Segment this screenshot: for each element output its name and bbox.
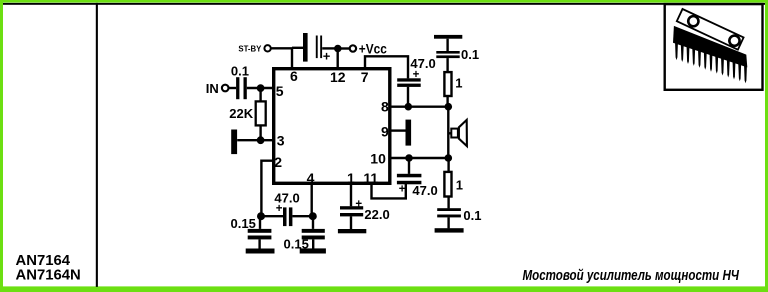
package pins	[675, 41, 747, 84]
svg-text:47.0: 47.0	[412, 183, 437, 198]
wire C10 to ground	[350, 216, 352, 229]
wire C7 to pin 4 node	[292, 215, 312, 217]
wire pin 10 line	[392, 157, 451, 159]
wire IN to C6	[228, 87, 236, 89]
svg-text:+Vcc: +Vcc	[359, 40, 387, 56]
ground bar at pin 9	[406, 120, 412, 146]
wire pin 1 to C10	[350, 184, 352, 206]
wire C3 to R1	[446, 58, 448, 72]
wire node to ground bar	[237, 139, 260, 141]
+Vcc terminal circle	[350, 45, 356, 51]
wire C2 to pin 8 line	[407, 87, 409, 107]
wire R2 to C5	[447, 197, 449, 209]
svg-text:IN: IN	[206, 81, 219, 96]
wire pin10 node to C4	[408, 158, 410, 174]
top rule line	[3, 3, 765, 5]
resistor R1 1 (top right)	[444, 72, 462, 96]
svg-text:3: 3	[277, 133, 285, 149]
node pin5/R3	[257, 84, 265, 92]
node pin10/speaker	[445, 154, 453, 162]
wire node to pin 12	[337, 51, 339, 68]
mounting tab	[677, 9, 744, 50]
svg-text:6: 6	[290, 68, 298, 84]
node pin8/speaker	[445, 103, 453, 111]
node pin2/C7	[257, 212, 265, 220]
svg-text:1: 1	[455, 76, 462, 91]
wire pin 9	[392, 129, 406, 131]
svg-text:12: 12	[330, 69, 346, 85]
wire node to C7	[261, 215, 283, 217]
capacitor C4 47.0 (pin10 to pin11)	[397, 174, 438, 198]
node pin3	[257, 136, 265, 144]
ground (top right)	[434, 35, 462, 51]
capacitor C5 0.1 (bottom right)	[437, 208, 481, 223]
svg-text:AN7164N: AN7164N	[16, 267, 81, 283]
svg-text:1: 1	[347, 170, 355, 186]
svg-text:Мостовой усилитель мощности НЧ: Мостовой усилитель мощности НЧ	[523, 267, 740, 284]
package body	[673, 26, 747, 68]
svg-text:22.0: 22.0	[364, 207, 389, 222]
speaker LS1	[448, 120, 467, 146]
svg-text:4: 4	[307, 170, 315, 186]
ground (below C9)	[300, 248, 326, 253]
ground (below C8)	[246, 249, 275, 254]
capacitor C8 0.15 (left)	[231, 216, 272, 249]
wire pin 8 line	[392, 105, 451, 107]
svg-text:22K: 22K	[229, 106, 253, 121]
capacitor C1 (electrolytic, ST-BY)	[303, 33, 331, 63]
wire speaker branch	[447, 107, 449, 158]
wire C1 to +Vcc node	[322, 47, 336, 49]
capacitor C10 22.0 (electrolytic)	[340, 199, 390, 222]
node pin8/C2	[405, 103, 413, 111]
svg-text:0.15: 0.15	[231, 216, 256, 231]
svg-text:11: 11	[363, 170, 378, 186]
svg-text:9: 9	[381, 123, 389, 139]
svg-text:2: 2	[274, 154, 282, 170]
wire ST-BY to pin 6	[271, 48, 292, 68]
capacitor C6 0.1 (input)	[231, 63, 249, 99]
svg-text:7: 7	[361, 69, 369, 85]
svg-text:0.1: 0.1	[463, 208, 481, 223]
part number labels AN7164 / AN7164N	[16, 253, 81, 283]
svg-text:0.1: 0.1	[461, 47, 479, 62]
wire pin 4	[311, 184, 313, 214]
wire pin6 node to capacitor C1	[292, 47, 304, 49]
svg-text:ST-BY: ST-BY	[238, 45, 261, 54]
left column divider line	[96, 3, 98, 287]
svg-text:8: 8	[381, 99, 389, 115]
wire pin 2 down	[261, 161, 273, 213]
svg-text:+: +	[323, 48, 331, 63]
svg-text:47.0: 47.0	[410, 56, 435, 71]
svg-text:+: +	[276, 203, 283, 215]
wire node to pin 3	[261, 139, 273, 141]
svg-text:0.1: 0.1	[231, 63, 249, 78]
IC package illustration	[673, 9, 747, 83]
wire pin 7 to capacitor C2	[365, 56, 408, 78]
wire node to +Vcc terminal	[341, 47, 350, 49]
capacitor C9 0.15 (right)	[284, 216, 325, 251]
ground (bottom right)	[435, 228, 464, 232]
svg-text:+: +	[413, 69, 420, 81]
ground (below C10)	[338, 229, 366, 233]
wire pin10 node to R2	[447, 158, 449, 171]
node pin10/C4	[405, 154, 413, 162]
wire node to R3	[259, 88, 261, 101]
resistor R3 22K	[229, 101, 265, 125]
wire R1 to pin8 node	[446, 96, 448, 105]
wire C4 to pin 11	[372, 184, 406, 198]
ground bar at pin 3	[231, 130, 237, 155]
wire R3 to pin 3 node	[259, 125, 261, 140]
node at pin 12 / +Vcc	[334, 45, 342, 53]
svg-text:10: 10	[370, 151, 386, 167]
capacitor C2 47.0 (pin7 to pin8)	[397, 56, 436, 87]
resistor R2 1 (bottom right)	[444, 172, 463, 197]
IN terminal circle	[222, 85, 229, 92]
capacitor C7 47.0 (electrolytic, bottom left)	[274, 190, 299, 226]
IC U1 AN7164 body	[274, 69, 390, 184]
node pin4/C9	[309, 212, 317, 220]
svg-text:1: 1	[456, 178, 463, 193]
IC package illustration box	[665, 4, 763, 90]
ST-BY terminal circle	[264, 45, 270, 51]
wire C6 to pin 5	[247, 87, 273, 89]
wire C5 to ground	[447, 217, 449, 228]
capacitor C3 0.1 (top right)	[436, 47, 479, 62]
svg-text:5: 5	[276, 83, 284, 99]
